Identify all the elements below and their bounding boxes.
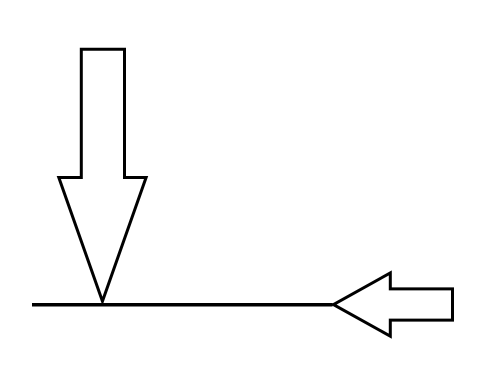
left block arrow [334,273,453,336]
down block arrow [59,49,146,301]
wire [32,303,333,307]
